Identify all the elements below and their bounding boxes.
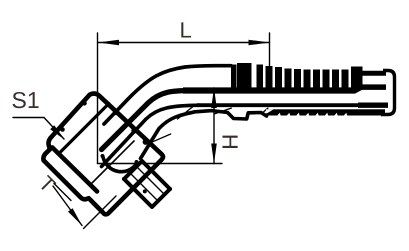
nut body outline: [43, 93, 170, 214]
wire tube outer-top curve: [104, 66, 231, 124]
wire tube bore-bottom curve: [102, 105, 201, 166]
svg-text:L: L: [180, 17, 192, 42]
wire dimension L line: [98, 42, 270, 44]
bore section line: [92, 141, 134, 183]
wire tube bore-top curve: [102, 91, 193, 150]
svg-text:S1: S1: [12, 87, 40, 113]
wire dimension H line: [213, 88, 215, 164]
wire skive thin line 2: [262, 108, 268, 113]
node H bottom arrow: [211, 144, 217, 164]
wire T extension line: [84, 196, 117, 229]
node L left arrow: [98, 40, 119, 46]
svg-text:H: H: [218, 134, 243, 150]
junction dots: [50, 101, 172, 194]
junction blobs at tube/face crossings: [113, 109, 149, 145]
wire extension line right: [269, 33, 271, 66]
wire T leader: [53, 186, 82, 226]
body block: [124, 161, 170, 207]
stem bore-bottom tip segment: [358, 102, 388, 107]
wire S1 leader: [13, 118, 64, 140]
stem bottom barb band: [266, 109, 385, 116]
node H top arrow: [211, 88, 217, 108]
stem tip cap: [381, 71, 395, 115]
wire extension line left: [97, 33, 99, 164]
body block inner line 2: [137, 167, 164, 194]
wire skive thin line 3: [178, 107, 194, 120]
thread line: [54, 184, 71, 201]
hose stem: [197, 71, 395, 115]
body block inner line 1: [130, 173, 157, 200]
barb teeth: [231, 63, 363, 91]
node T arrow: [68, 208, 82, 225]
node L right arrow: [249, 40, 270, 46]
nut front face: [52, 148, 97, 192]
stem bore-bottom line: [197, 103, 387, 107]
stem tip top line: [361, 71, 386, 76]
wire skive thin line 1: [214, 108, 231, 114]
wire seat thin line: [153, 134, 171, 142]
nut facet line: [59, 104, 109, 154]
node S1 arrow: [50, 125, 65, 140]
sleeve smile arc: [103, 157, 137, 172]
wire extension line bottom horizontal: [98, 163, 223, 165]
stem root band: [183, 84, 386, 93]
wire tube outer-bottom curve: [141, 111, 267, 159]
